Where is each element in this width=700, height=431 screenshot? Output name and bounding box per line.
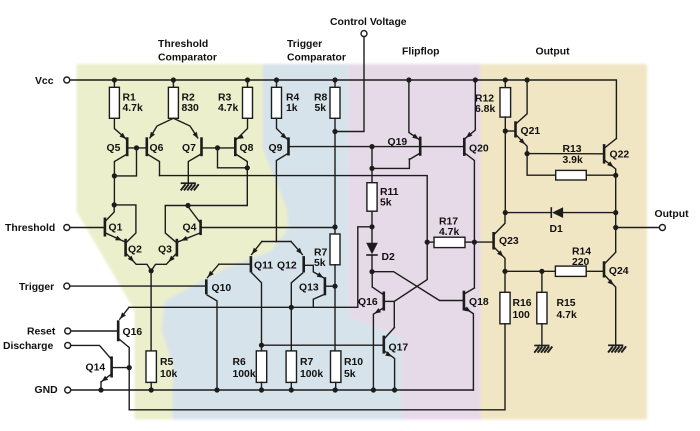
transistor Q24	[603, 261, 606, 277]
svg-text:5k: 5k	[315, 103, 327, 114]
node Q13 base junction	[332, 284, 337, 289]
resistor R10	[331, 351, 341, 383]
svg-text:D1: D1	[550, 224, 564, 235]
wire Q9 collector feed	[275, 241, 277, 243]
transistor Q10	[205, 279, 208, 294]
svg-text:Comparator: Comparator	[158, 52, 217, 63]
transistor Q16 reset	[117, 320, 120, 341]
svg-text:6.8k: 6.8k	[475, 104, 495, 115]
node D2 cathode junction	[369, 269, 374, 274]
svg-text:Q12: Q12	[277, 261, 297, 272]
svg-text:R11: R11	[380, 187, 399, 198]
transistor Q21	[505, 130, 514, 132]
svg-text:R15: R15	[557, 298, 576, 309]
transistor Q8	[237, 118, 248, 139]
svg-text:Q11: Q11	[254, 261, 273, 272]
svg-text:Q6: Q6	[150, 143, 164, 154]
svg-text:R7: R7	[300, 357, 314, 368]
svg-text:Q8: Q8	[240, 143, 254, 154]
transistor Q6	[150, 118, 174, 138]
svg-text:Control Voltage: Control Voltage	[330, 17, 407, 28]
wire Q7/Q8 base tie	[203, 147, 235, 149]
wire Q22 base line	[527, 153, 603, 155]
resistor R8	[334, 80, 336, 87]
svg-text:Q3: Q3	[158, 245, 172, 256]
transistor Q4	[199, 220, 202, 235]
transistor Q11	[250, 256, 253, 272]
region output (tan)	[482, 66, 646, 419]
svg-text:Q4: Q4	[183, 222, 197, 233]
transistor Q16	[382, 292, 385, 311]
wire output bus vertical	[615, 175, 617, 252]
svg-text:Q16: Q16	[358, 297, 378, 308]
svg-text:Trigger: Trigger	[287, 39, 322, 50]
transistor Q1	[104, 218, 107, 237]
svg-text:R7: R7	[314, 247, 328, 258]
svg-text:Q10: Q10	[212, 283, 232, 294]
transistor Q3	[176, 239, 179, 257]
wire Q19 collector branch	[372, 159, 409, 168]
region flipflop (purple)	[350, 66, 482, 419]
svg-text:4.7k: 4.7k	[123, 103, 143, 114]
svg-text:Reset: Reset	[27, 327, 56, 338]
svg-text:Discharge: Discharge	[3, 341, 53, 352]
svg-text:R5: R5	[160, 357, 174, 368]
terminal Discharge	[65, 342, 71, 348]
svg-text:R4: R4	[286, 92, 300, 103]
node D1 anode junction	[613, 210, 618, 215]
ground Q24 emitter	[608, 344, 623, 346]
svg-text:Q19: Q19	[388, 137, 408, 148]
transistor Q7	[173, 118, 197, 138]
terminal Reset	[65, 328, 71, 334]
svg-text:5k: 5k	[344, 369, 356, 380]
node GND junctions	[98, 387, 103, 392]
svg-text:100k: 100k	[300, 369, 323, 380]
resistor R7 (100k)	[286, 351, 296, 383]
region trigger comparator (blue)	[163, 66, 403, 419]
node R11 top junction	[369, 144, 374, 149]
wire comparator output line	[290, 146, 463, 148]
svg-text:5k: 5k	[380, 198, 392, 209]
node Q2/Q3 emitter junction	[149, 268, 154, 273]
svg-text:Output: Output	[655, 209, 690, 220]
svg-text:Q22: Q22	[610, 150, 630, 161]
resistor R1	[113, 80, 115, 87]
svg-text:Output: Output	[536, 46, 571, 57]
svg-text:4.7k: 4.7k	[439, 227, 459, 238]
wire cross coupling to Q18 base	[372, 272, 463, 301]
resistor R4	[276, 80, 278, 87]
resistor R16	[504, 271, 506, 292]
svg-text:R3: R3	[218, 92, 232, 103]
svg-text:Q13: Q13	[299, 282, 319, 293]
wire Vcc rail	[70, 80, 617, 139]
node Q8 collector junction	[245, 165, 250, 170]
svg-text:Q7: Q7	[182, 143, 196, 154]
svg-text:R14: R14	[572, 247, 591, 258]
svg-text:4.7k: 4.7k	[557, 310, 577, 321]
node R11 bottom junction	[369, 224, 374, 229]
svg-text:Q14: Q14	[86, 363, 106, 374]
svg-text:Q1: Q1	[109, 222, 123, 233]
resistor R14	[555, 266, 586, 276]
svg-text:220: 220	[572, 257, 590, 268]
wire Q17 base line	[262, 344, 384, 346]
svg-text:D2: D2	[382, 252, 396, 263]
terminal Threshold	[64, 225, 70, 231]
node Q21 emitter junction	[525, 151, 530, 156]
transistor Q23	[492, 232, 495, 250]
node R13 right junction	[613, 173, 618, 178]
svg-text:10k: 10k	[160, 369, 178, 380]
diode D2	[371, 227, 373, 243]
resistor R12	[504, 80, 506, 88]
wire comparator mirror rail	[160, 176, 428, 328]
transistor Q5	[114, 118, 126, 139]
node Q1/Q2 collector junction	[112, 202, 117, 207]
wire Reset input	[71, 330, 118, 332]
svg-text:R12: R12	[475, 93, 494, 104]
transistor Q14	[71, 345, 111, 358]
transistor Q9	[277, 118, 288, 139]
node Q23 emitter junction	[502, 269, 507, 274]
wire Q5/Q6 base tie	[128, 147, 146, 149]
transistor Q2	[124, 239, 127, 257]
node R15 top junction	[539, 269, 544, 274]
transistor Q20	[466, 80, 476, 138]
node Q14 base junction	[127, 365, 132, 370]
svg-text:4.7k: 4.7k	[218, 103, 238, 114]
wire flipflop input line	[129, 306, 358, 308]
transistor Q17	[382, 336, 385, 354]
svg-text:5k: 5k	[314, 258, 326, 269]
terminal GND	[65, 387, 71, 393]
svg-text:Q21: Q21	[521, 126, 541, 137]
transistor Q22	[603, 144, 606, 164]
svg-text:Q20: Q20	[469, 144, 489, 155]
svg-text:Q18: Q18	[469, 297, 489, 308]
svg-text:GND: GND	[35, 385, 59, 396]
wire GND rail	[71, 389, 474, 391]
svg-text:R2: R2	[182, 92, 196, 103]
transistor Q12	[302, 256, 305, 272]
svg-text:100: 100	[513, 310, 531, 321]
ground threshold comparator	[181, 182, 196, 184]
node R6 top junction	[259, 343, 264, 348]
resistor R11	[371, 147, 373, 183]
region threshold comparator (green)	[78, 66, 290, 419]
ground R15	[534, 345, 549, 347]
svg-text:Vcc: Vcc	[35, 76, 54, 87]
svg-text:Flipflop: Flipflop	[402, 46, 440, 57]
svg-text:Q24: Q24	[609, 266, 629, 277]
svg-text:R1: R1	[123, 92, 137, 103]
svg-text:Threshold: Threshold	[5, 223, 55, 234]
node D1 cathode junction	[503, 210, 508, 215]
resistor R15	[541, 271, 543, 292]
svg-text:R8: R8	[314, 92, 328, 103]
resistor R6	[256, 351, 266, 383]
svg-text:100k: 100k	[233, 369, 256, 380]
resistor R17	[434, 237, 465, 247]
terminal Trigger	[64, 283, 70, 289]
svg-text:Trigger: Trigger	[19, 282, 54, 293]
wire Q4 base reference	[202, 227, 335, 229]
svg-text:Threshold: Threshold	[158, 39, 208, 50]
wire Trigger input	[70, 285, 205, 287]
wire Threshold input	[70, 227, 104, 229]
transistor Q13	[324, 277, 327, 295]
svg-text:R6: R6	[233, 357, 247, 368]
wire Control Voltage	[335, 37, 364, 132]
svg-text:3.9k: 3.9k	[563, 155, 583, 166]
node Q5 collector junction	[112, 173, 117, 178]
svg-text:830: 830	[182, 103, 200, 114]
node Vcc rail junctions	[112, 77, 117, 82]
wire R11 bottom to trigger line	[358, 227, 372, 307]
resistor R2	[172, 80, 174, 87]
svg-text:R16: R16	[513, 298, 532, 309]
diode D1	[505, 212, 551, 214]
resistor R7 (5k)	[334, 118, 336, 234]
wire discharge feedback	[129, 324, 505, 410]
svg-text:R13: R13	[563, 144, 582, 155]
svg-text:R10: R10	[344, 357, 363, 368]
resistor R13	[527, 154, 556, 176]
terminal Vcc	[64, 77, 70, 83]
resistor R3	[247, 80, 249, 87]
transistor Q18	[463, 291, 466, 311]
wire R14 feed line	[505, 270, 555, 272]
svg-text:Q16: Q16	[123, 327, 143, 338]
svg-text:Comparator: Comparator	[287, 52, 346, 63]
transistor Q19	[409, 80, 419, 140]
svg-text:Q9: Q9	[269, 143, 283, 154]
wire Q8 collector to Q4 node	[188, 168, 247, 206]
svg-text:Q5: Q5	[107, 143, 121, 154]
svg-text:1k: 1k	[286, 103, 298, 114]
node Q3/Q4 collector junction	[185, 203, 190, 208]
node Q12 collector junction	[289, 305, 294, 310]
resistor R5	[150, 271, 152, 351]
svg-text:Q2: Q2	[128, 245, 142, 256]
svg-text:Q23: Q23	[499, 236, 519, 247]
svg-text:Q17: Q17	[389, 342, 409, 353]
svg-text:R17: R17	[439, 217, 458, 228]
